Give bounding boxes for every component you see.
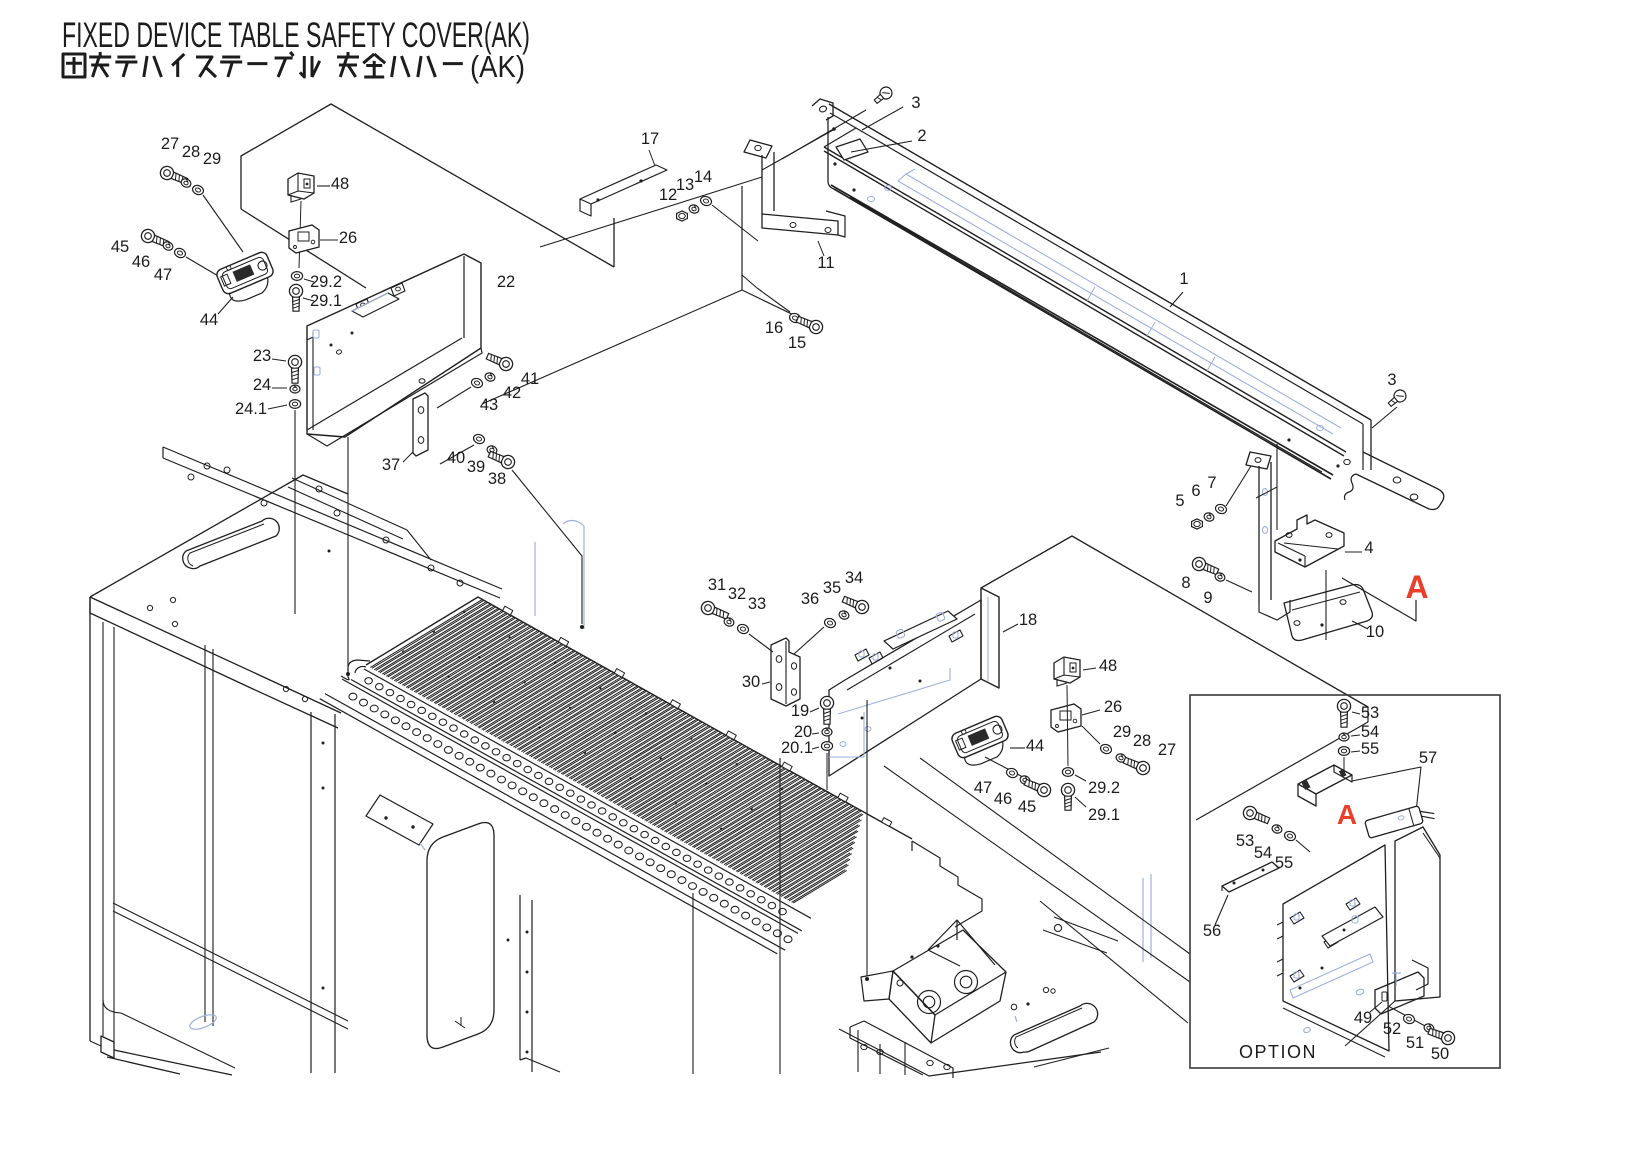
option plate tab 1: [1290, 912, 1304, 924]
svg-text:28: 28: [182, 143, 200, 161]
cover 18 plate fold: [847, 614, 975, 690]
cover 18 plate outline: [829, 600, 981, 776]
bracket 4 hole 2: [1326, 533, 1332, 538]
svg-text:47: 47: [974, 779, 992, 797]
washer 52: [1402, 1013, 1416, 1025]
screw 3 right: [1386, 388, 1409, 410]
tower hole dot 1: [322, 742, 325, 745]
svg-text:48: 48: [331, 175, 349, 193]
cover 18 subplate blue hole 2: [936, 612, 946, 622]
cover 22 top tab hole 1: [361, 303, 366, 307]
bolt 45R: [1023, 776, 1053, 799]
cabinet top face thickness edge: [90, 597, 338, 728]
base hole c: [1051, 989, 1055, 993]
support block hole: [897, 980, 903, 986]
cover 18 white subplate: [884, 611, 957, 649]
cabinet bottom edge lower: [107, 1057, 180, 1074]
support bearing ring 2 outer: [955, 971, 978, 994]
washer 20.1: [821, 742, 832, 751]
support block dot 1: [910, 955, 913, 958]
leader 36 to bracket: [794, 627, 824, 654]
option plate dot 1: [1321, 967, 1324, 970]
cover 18 strip blue inner: [987, 597, 989, 681]
cover 22 right strip inner: [463, 256, 465, 338]
cover 22 top tab hole 2: [396, 287, 401, 291]
svg-text:9: 9: [1203, 589, 1212, 607]
nut 5: [1192, 519, 1203, 529]
cabinet top hole 4: [302, 696, 307, 701]
support block top face: [893, 930, 1006, 1015]
bolt 19 vertical: [820, 696, 833, 724]
svg-text:3: 3: [911, 94, 920, 112]
base rail hole 3: [927, 1060, 933, 1065]
svg-text:29.2: 29.2: [310, 273, 342, 291]
leader 54a: [1351, 735, 1360, 736]
bolt 31: [699, 599, 730, 622]
bolt 53 top vertical: [1337, 699, 1350, 727]
bracket 30 hole 1: [776, 656, 782, 663]
bracket 4 fold 2: [1304, 556, 1306, 567]
part 17 bar: [580, 165, 667, 204]
plate 10 hole 1: [1294, 621, 1300, 626]
option blue T pin: [1392, 972, 1401, 986]
washer 24: [290, 385, 300, 393]
svg-text:19: 19: [791, 702, 809, 720]
part 2 label plate: [836, 139, 868, 160]
bolt 29.1 vertical: [289, 284, 302, 311]
leader 30: [762, 682, 770, 684]
svg-text:23: 23: [253, 347, 271, 365]
part 11 plate bottom edge: [742, 290, 800, 318]
svg-text:12: 12: [659, 186, 677, 204]
svg-text:53: 53: [1236, 832, 1254, 850]
bar 56 bottom: [1221, 886, 1223, 891]
background plane bottom edge: [241, 209, 366, 288]
bracket 30 hole 3: [791, 663, 796, 669]
support bearing ring 2 inner: [960, 976, 972, 988]
washer 29R: [1099, 743, 1113, 755]
leader 49-52 chain: [1388, 1006, 1440, 1034]
bar1 blue tick 3: [1207, 357, 1215, 371]
cabinet shelf edge lower: [113, 911, 348, 1029]
cover 18 plane right tick: [1367, 707, 1369, 722]
part 11 arm hole 2: [825, 228, 831, 233]
bracket 49 slot: [1382, 992, 1387, 1001]
tower hole dot 2: [322, 787, 325, 790]
option plate bottom fold: [1283, 1008, 1385, 1057]
washer 47R: [1005, 767, 1019, 779]
table rail2 bottom edge: [325, 694, 785, 951]
cover 18 subplate blue hole 1: [896, 629, 906, 639]
rear deck hole 8: [428, 565, 434, 571]
tower hole dot 6: [526, 1011, 529, 1014]
svg-text:13: 13: [676, 176, 694, 194]
bar1 left vertical edge: [827, 117, 829, 181]
bar1 left tab: [812, 99, 833, 120]
switch 48 to plate 26 line: [299, 201, 301, 268]
mount strip left edge: [1258, 466, 1260, 604]
leader 48 label: [317, 185, 330, 187]
rear deck hole 9: [457, 580, 463, 586]
svg-text:5: 5: [1175, 492, 1184, 510]
screw 3 top: [872, 85, 895, 107]
leader 19 down: [826, 753, 828, 790]
washer 43: [470, 377, 484, 389]
svg-text:45: 45: [1018, 798, 1036, 816]
table front face bottom: [320, 699, 778, 954]
tower face right edge: [519, 895, 521, 1060]
leader 57 fan: [1352, 767, 1421, 812]
bracket 37: [413, 393, 428, 456]
leader 38 to rail: [512, 470, 582, 624]
leader 29.1: [303, 298, 314, 301]
leader 18: [1003, 624, 1018, 632]
mount strip bottom hook: [1259, 600, 1290, 620]
washer 39: [486, 445, 498, 456]
leader 47 to latch: [186, 257, 225, 280]
background plane outline: [241, 104, 614, 267]
svg-text:48: 48: [1099, 657, 1117, 675]
rear deck hole 7: [383, 537, 389, 543]
svg-text:55: 55: [1361, 740, 1379, 758]
leader fan line B: [920, 758, 1190, 954]
option plate tab 3: [1324, 936, 1338, 948]
rear deck edge: [163, 447, 502, 589]
part 11 lower leader: [742, 275, 757, 288]
svg-text:29.1: 29.1: [310, 292, 342, 310]
leader 4: [1345, 551, 1362, 553]
svg-text:38: 38: [488, 470, 506, 488]
switch 48 right: [1054, 657, 1080, 686]
svg-text:20.1: 20.1: [781, 739, 813, 757]
bar1 end hole 3: [1344, 459, 1350, 464]
bar 56 dot 1: [1233, 882, 1236, 885]
option box border: [1190, 695, 1500, 1068]
bar1 blue oval 1: [885, 185, 892, 190]
bar1 dot 3: [1336, 464, 1339, 467]
tower door opening: [427, 823, 494, 1049]
vertical leader dot: [865, 977, 869, 981]
blue hidden vertical right 1: [1142, 878, 1144, 962]
latch 44 right: [950, 714, 1015, 770]
plate 26 right: [1051, 704, 1081, 732]
cabinet foot: [101, 1036, 114, 1058]
option right wall fold: [1423, 833, 1440, 858]
rear deck hole 2: [204, 463, 210, 469]
cover 22 face dot 2: [351, 332, 354, 335]
leader 33 to bracket30: [749, 634, 773, 652]
table hole row 2: [349, 693, 792, 942]
svg-text:17: 17: [641, 130, 659, 148]
base vertical drop 3: [857, 1030, 859, 1072]
base hole d: [1011, 1004, 1017, 1010]
bar1 back edge: [829, 104, 1371, 420]
cover 22 flange hole: [419, 379, 425, 383]
nut 12: [677, 211, 688, 221]
blue tick on tower: [420, 843, 425, 850]
base rail: [850, 1021, 953, 1078]
leader dot on bar tab: [832, 127, 836, 131]
option plate dot 2: [1299, 987, 1302, 990]
option right wall: [1395, 827, 1440, 1001]
option plate tab hole 2: [1294, 972, 1299, 978]
svg-text:29.1: 29.1: [1088, 806, 1120, 824]
base dot e: [1026, 1002, 1029, 1005]
svg-text:1: 1: [1179, 270, 1188, 288]
striker block end: [1334, 765, 1352, 782]
bracket 30 hole 2: [776, 684, 782, 691]
mount strip right edge: [1270, 462, 1272, 600]
switch 48 left: [288, 173, 314, 202]
washer 47: [173, 247, 187, 259]
table surface pin dots: [402, 611, 783, 830]
support block right bottom edge: [931, 972, 1006, 1043]
table right end face edge: [911, 841, 913, 851]
bracket 30 fold: [785, 641, 787, 704]
leader 20.1: [812, 747, 819, 749]
base slot capsule: [1010, 1003, 1097, 1052]
svg-text:41: 41: [521, 370, 539, 388]
cover 22 notch plate blue edge: [352, 293, 388, 311]
cover 18 tab 3: [949, 630, 963, 642]
cover 22 blue square hole 2: [314, 367, 320, 375]
option plate tab hole 3: [1328, 938, 1333, 944]
long vertical leader mid: [779, 758, 781, 1074]
leader 9 to strip: [1226, 580, 1252, 592]
cabinet left front edge: [89, 597, 91, 1041]
svg-text:8: 8: [1181, 574, 1190, 592]
base diagonal 2: [1043, 930, 1107, 953]
bracket 49: [1375, 972, 1424, 1014]
base rail hole 2: [877, 1049, 883, 1054]
svg-text:26: 26: [1104, 698, 1122, 716]
leader 24.1: [268, 405, 287, 409]
cabinet top hole 2: [172, 621, 177, 626]
sensor 57 outline: [1365, 802, 1436, 838]
svg-text:50: 50: [1431, 1045, 1449, 1063]
bolt 38: [487, 448, 517, 471]
washer 16: [788, 312, 802, 324]
svg-text:55: 55: [1275, 854, 1293, 872]
base diagonal 1: [1054, 917, 1118, 941]
bar1 dot 2: [852, 188, 855, 191]
part 11 top flange: [744, 140, 772, 158]
bracket 4 inner: [1284, 543, 1338, 549]
bolt 50: [1427, 1025, 1457, 1047]
bracket 30 hole 4: [791, 689, 796, 695]
option plate left tab 1: [1277, 922, 1283, 939]
washer 28R: [1115, 753, 1127, 764]
bracket 4 hole 1: [1286, 533, 1292, 538]
leader 55a: [1351, 751, 1360, 752]
bolt 15: [795, 313, 825, 336]
leader 26R: [1082, 710, 1100, 715]
support block dot 2: [936, 944, 939, 947]
svg-text:14: 14: [694, 168, 712, 186]
cabinet floor edge: [121, 1013, 235, 1068]
bar1 right end vertical: [1370, 420, 1372, 470]
leader 26 label: [320, 239, 338, 241]
washer 33: [736, 623, 750, 635]
plate 10 outline: [1284, 585, 1372, 641]
cabinet left inner wall edge 2: [113, 627, 115, 1044]
cabinet top hole 3: [283, 686, 288, 691]
tower hole dot 8: [507, 939, 510, 942]
cover 22 top tab 2: [391, 283, 405, 296]
leader 29.1R: [1075, 797, 1086, 807]
svg-text:FIXED DEVICE TABLE SAFETY COVE: FIXED DEVICE TABLE SAFETY COVER(AK): [62, 16, 530, 55]
blue hidden vertical right 2: [1150, 874, 1152, 958]
leader 56: [1215, 895, 1228, 925]
cabinet top face front edge: [90, 597, 341, 713]
bolt 27R: [1122, 754, 1152, 777]
cover 22 white notch plate: [352, 293, 399, 317]
bar1 mid edge a: [824, 147, 1346, 452]
option blue oval: [1303, 1027, 1311, 1034]
striker block slot 2: [1339, 769, 1347, 778]
tower door inner tick: [455, 1017, 465, 1028]
plate 10 hole 2: [1340, 600, 1346, 605]
svg-text:45: 45: [111, 238, 129, 256]
leader 11: [818, 241, 824, 256]
support gusset: [928, 920, 957, 950]
rear deck left end: [162, 447, 164, 458]
bar1 top face notch: [824, 113, 856, 147]
washer 29.2: [291, 272, 302, 281]
latch 44 left: [215, 250, 280, 306]
cover 18 blue oval: [840, 742, 846, 747]
svg-text:28: 28: [1133, 732, 1151, 750]
washer 55 left: [1283, 830, 1297, 842]
tower hole dot 7: [526, 1051, 529, 1054]
svg-text:6: 6: [1191, 482, 1200, 500]
option blue parallelogram: [1290, 954, 1373, 998]
base vertical drop 1: [904, 1042, 906, 1075]
svg-text:3: 3: [1387, 371, 1396, 389]
option plate tab hole 1: [1294, 914, 1299, 920]
svg-text:57: 57: [1419, 749, 1437, 767]
svg-text:27: 27: [161, 135, 179, 153]
washer 51: [1423, 1023, 1435, 1034]
rear deck hole 1: [188, 474, 194, 480]
svg-text:OPTION: OPTION: [1239, 1042, 1317, 1062]
svg-text:39: 39: [467, 458, 485, 476]
cover 18 tab hole 3: [953, 632, 958, 638]
cover 22 main outline: [307, 254, 481, 437]
leader 53a: [1352, 712, 1360, 714]
tower white plate: [366, 795, 433, 845]
svg-text:29.2: 29.2: [1088, 779, 1120, 797]
bolt 29.1R vertical: [1061, 783, 1074, 810]
svg-text:22: 22: [497, 273, 515, 291]
tower face right edge 2: [531, 900, 533, 1072]
part4 to part10 vertical leader: [1325, 570, 1327, 640]
part 11 strip right: [773, 152, 775, 211]
cover 18 plate dot 3: [861, 717, 864, 720]
rear deck hole 3: [224, 467, 230, 473]
base slot inner line: [1015, 1008, 1082, 1048]
base diagonal 3: [1034, 1048, 1109, 1067]
washer 29: [191, 184, 205, 196]
table back edge tabs: [503, 606, 892, 826]
leader 43 to flange: [437, 387, 471, 408]
option back plate: [1283, 845, 1389, 1051]
bar1 front bottom edge a: [834, 189, 1331, 479]
option plate left tab 2: [1277, 959, 1283, 976]
support gusset brace: [957, 920, 995, 965]
option subplate blue hole: [1352, 916, 1358, 923]
washer 40: [472, 433, 486, 445]
svg-text:A: A: [1337, 799, 1357, 830]
rear deck hole 6: [334, 510, 340, 516]
washer 28: [180, 177, 192, 188]
svg-text:11: 11: [817, 254, 834, 272]
svg-text:10: 10: [1366, 623, 1384, 641]
cabinet interior vertical 1: [204, 645, 206, 1022]
table hole row 1: [365, 678, 786, 915]
bar1 blue tick 2: [1147, 322, 1155, 336]
rear deck hole 4: [261, 500, 267, 506]
cover 18 plane apex: [981, 536, 1368, 707]
cover 18 tab hole 2: [873, 654, 878, 660]
leader A section: [1342, 578, 1416, 621]
bar1 end plate hole 1: [1393, 477, 1401, 483]
bar1 tab hole: [819, 105, 828, 113]
leader 3 top: [862, 107, 903, 130]
support gusset brace 2: [928, 950, 960, 966]
part 17 dot 1: [596, 198, 599, 201]
cover 18 tab hole 1: [859, 651, 864, 657]
rear deck step band lower: [288, 487, 403, 539]
base bottom edge: [839, 1029, 1101, 1076]
svg-text:29: 29: [1113, 723, 1131, 741]
bar1 front bottom edge b: [831, 185, 1333, 475]
bar1 left corner: [828, 181, 834, 189]
leader 3 right: [1372, 407, 1397, 428]
mount strip top flange: [1246, 452, 1271, 469]
bar 56: [1222, 862, 1279, 892]
part 11 arm hole 1: [790, 223, 796, 228]
svg-text:30: 30: [742, 673, 760, 691]
base rail hole 4: [944, 1064, 950, 1069]
bar1 dot 4: [1287, 438, 1290, 441]
bar1 blue inner line bottom: [898, 181, 1333, 434]
bar1 end plate: [1356, 452, 1444, 510]
svg-text:24.1: 24.1: [235, 400, 267, 418]
washer 36: [823, 617, 837, 629]
base vertical drop 2: [879, 1044, 881, 1074]
washer 6: [1203, 512, 1215, 523]
long diagonal 17-11: [540, 177, 762, 247]
bar1 blue oval 2: [868, 196, 875, 201]
cover 18 strip: [981, 588, 999, 688]
leader fan line C: [1040, 901, 1188, 1023]
cabinet floor corner: [103, 1000, 121, 1013]
mount strip blue hole 1: [1262, 489, 1267, 496]
svg-text:24: 24: [253, 376, 271, 394]
washer 7: [1214, 503, 1228, 515]
leader 5-7 line: [1256, 487, 1277, 498]
washer 46: [162, 240, 174, 251]
cover 22 face hole: [336, 349, 342, 355]
leader 11 flange to bolt3: [782, 110, 866, 159]
base rail lower: [850, 1027, 923, 1075]
cabinet top hole 1: [147, 605, 152, 610]
washer 29.2R: [1062, 768, 1073, 777]
base rail hole 1: [861, 1044, 867, 1049]
cover 18 tab 1: [855, 649, 869, 661]
mount strip flange hole: [1255, 458, 1261, 463]
